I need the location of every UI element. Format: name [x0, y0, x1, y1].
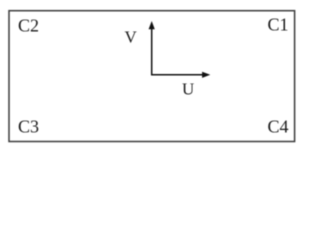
corner label C1 [268, 15, 289, 35]
svg-text:U: U [182, 80, 194, 99]
svg-text:C4: C4 [268, 117, 289, 137]
outer rectangle frame of UV plane [9, 11, 295, 142]
V axis label [125, 28, 138, 47]
svg-text:C3: C3 [18, 117, 39, 137]
svg-text:V: V [125, 28, 138, 47]
corner label C3 [18, 117, 39, 137]
U axis arrow (horizontal, pointing right) [151, 72, 210, 78]
corner label C4 [268, 117, 289, 137]
svg-text:C1: C1 [268, 15, 289, 35]
U axis label [182, 80, 194, 99]
V axis arrow (vertical, pointing up) [149, 21, 155, 75]
corner label C2 [18, 16, 39, 36]
svg-text:C2: C2 [18, 16, 39, 36]
